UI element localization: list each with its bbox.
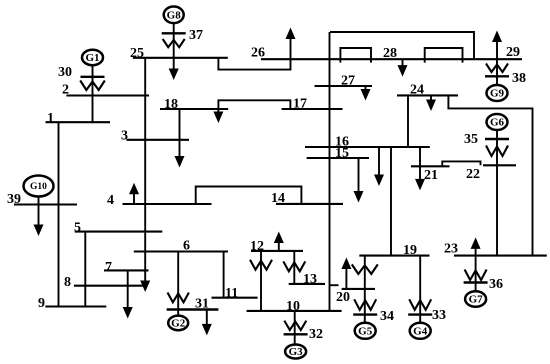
transformer 12-11 winding <box>250 260 272 270</box>
load arrow bus 39 / G10 column <box>38 197 40 227</box>
generator G9 <box>487 85 508 101</box>
bus 8 <box>74 285 143 287</box>
svg-text:35: 35 <box>464 132 478 147</box>
bus 11 <box>212 297 258 299</box>
bus 10 <box>247 310 342 312</box>
wire G4 column 19-33 <box>419 256 421 323</box>
bus 31 bar <box>167 308 219 310</box>
svg-text:25: 25 <box>130 46 144 61</box>
svg-text:14: 14 <box>271 191 285 206</box>
svg-text:22: 22 <box>466 167 480 182</box>
svg-text:G8: G8 <box>167 10 182 22</box>
svg-text:6: 6 <box>183 239 190 254</box>
transformer 33 winding <box>409 299 431 310</box>
svg-text:G9: G9 <box>490 88 505 100</box>
generator G5 <box>355 323 376 339</box>
bus 14 <box>276 203 343 205</box>
svg-text:G10: G10 <box>30 182 47 192</box>
bus 24 <box>397 94 458 96</box>
wire 5-8-9 <box>84 232 86 307</box>
arrow up bus 29 / G9 column <box>496 40 498 85</box>
bus 39 <box>14 203 77 205</box>
svg-text:8: 8 <box>64 275 71 290</box>
svg-text:10: 10 <box>286 299 300 314</box>
svg-text:24: 24 <box>410 83 424 98</box>
hop 21-22 <box>442 161 480 166</box>
transformer 34 winding <box>354 299 376 310</box>
svg-text:36: 36 <box>489 277 503 292</box>
generator G10 <box>24 176 54 197</box>
bus 16 <box>305 146 430 148</box>
bus 17 <box>282 108 343 110</box>
generator G3 <box>285 345 306 359</box>
transformer 12-13 winding <box>283 261 305 271</box>
svg-text:16: 16 <box>335 135 349 150</box>
svg-text:37: 37 <box>189 28 203 43</box>
wire 24-16 <box>407 95 409 147</box>
transformer 30 winding <box>80 81 105 91</box>
svg-text:39: 39 <box>7 192 21 207</box>
load arrow bus 28 <box>402 59 404 67</box>
svg-text:G6: G6 <box>490 117 505 129</box>
svg-text:2: 2 <box>62 83 69 98</box>
bus 27 <box>315 85 373 87</box>
load arrow bus 16 right <box>419 147 421 181</box>
bus 19 <box>359 255 429 257</box>
wire 23-G7 <box>475 256 477 292</box>
svg-text:34: 34 <box>380 309 394 324</box>
arrow up bus 4 <box>133 192 135 204</box>
transformer 36 winding <box>465 270 487 281</box>
svg-text:20: 20 <box>336 290 350 305</box>
wire 6-11 <box>223 252 225 298</box>
svg-text:13: 13 <box>303 272 317 287</box>
transformer 37 winding <box>163 39 185 47</box>
load arrow bus 24 <box>430 95 432 101</box>
transformer 34 bar <box>353 313 377 315</box>
transformer 31 winding <box>168 293 189 303</box>
svg-text:33: 33 <box>432 308 446 323</box>
bus 12 <box>251 250 303 252</box>
bus 7 <box>104 269 149 271</box>
bus 20 <box>342 288 375 290</box>
transformer 37 bar <box>162 32 186 34</box>
hop 18-17 <box>218 100 290 109</box>
svg-text:7: 7 <box>105 260 112 275</box>
wire 6-G2 <box>177 252 179 316</box>
bus 18 <box>160 108 228 110</box>
bus 13 <box>289 283 325 285</box>
svg-text:31: 31 <box>195 297 209 312</box>
bus 9 <box>45 305 106 307</box>
transformer 33 bar <box>408 313 432 315</box>
bus 5 <box>75 231 163 233</box>
wire bus24 to right edge down to bus23 <box>448 95 532 255</box>
bus 15 <box>307 157 369 159</box>
bus 3 <box>126 139 189 141</box>
svg-text:29: 29 <box>506 45 520 60</box>
generator G7 <box>465 291 486 307</box>
svg-text:30: 30 <box>58 65 72 80</box>
svg-text:18: 18 <box>164 97 178 112</box>
svg-text:G7: G7 <box>469 294 484 306</box>
bus 23 <box>454 255 547 257</box>
transformer 19-20 winding <box>352 264 378 274</box>
transformer 38 winding <box>486 64 508 73</box>
svg-text:G4: G4 <box>413 326 428 338</box>
load arrow bus 27 <box>365 86 367 91</box>
wire G1-2-1 <box>92 64 94 122</box>
load arrow bus 15 <box>358 158 360 193</box>
bus 25 <box>133 57 228 59</box>
svg-text:38: 38 <box>512 71 526 86</box>
bus 22 <box>483 164 516 166</box>
svg-text:23: 23 <box>444 242 458 257</box>
arrow up bus 23 <box>475 247 477 256</box>
svg-text:1: 1 <box>47 111 54 126</box>
wire G6 column 22-23 <box>496 130 498 256</box>
wire G8-37 <box>173 23 175 58</box>
generator G6 <box>487 114 508 130</box>
wire backbone 17-16-15-14-10 <box>329 32 331 311</box>
svg-text:28: 28 <box>383 46 397 61</box>
hop 4-14 <box>196 187 302 205</box>
arrow up bus 26 <box>290 37 292 59</box>
svg-text:G3: G3 <box>289 346 304 358</box>
svg-text:9: 9 <box>38 296 45 311</box>
bus 4 <box>123 203 212 205</box>
load arrow bus 18 <box>217 109 219 114</box>
svg-text:12: 12 <box>250 239 264 254</box>
long feeder 25-2-3-4-5-6-7 with arrow <box>144 58 146 283</box>
svg-text:5: 5 <box>74 221 81 236</box>
transformer 30 bar <box>81 76 105 78</box>
bus 1 <box>46 121 111 123</box>
wire 25-26 dip <box>218 58 290 70</box>
generator G4 <box>410 323 431 339</box>
svg-text:G2: G2 <box>171 318 186 330</box>
transformer 38 bar <box>485 75 509 77</box>
wire 18-3 with load arrow bus 3 <box>179 109 181 158</box>
svg-text:27: 27 <box>341 74 355 89</box>
bus 6 <box>134 250 228 252</box>
arrow up bus 20 <box>345 267 347 289</box>
transformer 35 bar <box>485 138 509 140</box>
transformer 36 bar <box>464 281 488 283</box>
load arrow bus 25 <box>173 58 175 71</box>
arrow up bus 12 <box>278 241 280 251</box>
wire 16-19 <box>390 147 392 256</box>
svg-text:4: 4 <box>107 193 114 208</box>
load arrow bus 16 left <box>378 147 380 177</box>
transformer 32 winding <box>284 321 306 330</box>
svg-text:21: 21 <box>424 168 438 183</box>
load arrow bus 7 <box>127 270 129 309</box>
wire G5 column 19-20 <box>364 256 366 323</box>
transformer 35 winding <box>486 146 508 157</box>
svg-text:11: 11 <box>225 286 238 301</box>
bus 21 <box>411 165 450 167</box>
svg-text:26: 26 <box>251 46 265 61</box>
generator G8 <box>164 7 184 24</box>
transformer 32 bar <box>284 333 308 335</box>
load arrow bus 31 <box>206 310 208 326</box>
generator G1 <box>82 50 103 65</box>
hop 26-28 <box>340 48 371 63</box>
svg-text:G5: G5 <box>358 326 373 338</box>
bus 26-28-29 corridor <box>261 58 522 60</box>
wire 1-39-9 <box>58 122 60 306</box>
wire 12-13 via transformer <box>293 251 295 284</box>
svg-text:32: 32 <box>309 327 323 342</box>
wire 10-G3 <box>294 311 296 345</box>
wire bus 20 stub <box>330 284 339 286</box>
svg-text:17: 17 <box>293 97 307 112</box>
generator G2 <box>168 316 188 331</box>
wire 12-10 via transformer <box>260 251 262 311</box>
wire top corridor 26-29 <box>330 32 474 59</box>
svg-text:19: 19 <box>403 243 417 258</box>
svg-text:3: 3 <box>121 129 128 144</box>
hop 28-29 <box>425 48 463 63</box>
svg-text:G1: G1 <box>85 52 99 64</box>
bus 2 <box>66 94 149 96</box>
